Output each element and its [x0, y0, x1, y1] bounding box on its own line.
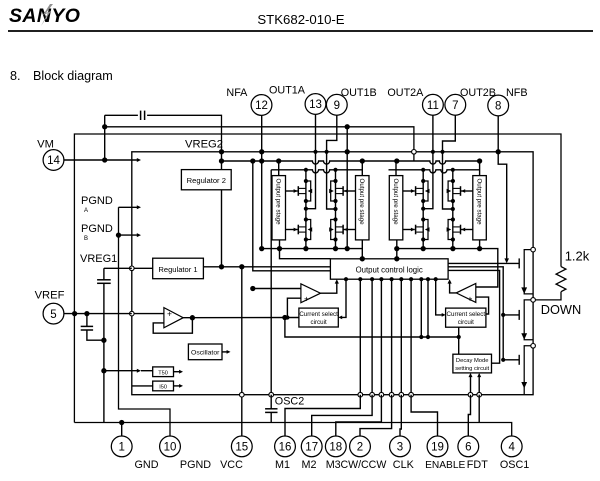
wire comp1 output to OCL	[321, 283, 337, 294]
wire M1	[285, 395, 360, 436]
svg-text:DOWN: DOWN	[541, 302, 582, 317]
transistor Q8 lower-right	[448, 220, 453, 240]
block Regulator 2	[181, 170, 231, 190]
wire GND pin	[121, 423, 123, 437]
wire OSC riser	[270, 170, 272, 395]
wire CLK	[400, 395, 401, 436]
pin 19 (ENABLE)	[427, 436, 448, 457]
svg-text:3: 3	[397, 442, 403, 454]
wire pin8 NFB drop	[498, 116, 507, 259]
svg-text:13: 13	[309, 99, 322, 111]
svg-text:1.2k: 1.2k	[565, 249, 590, 264]
svg-text:circuit: circuit	[311, 319, 327, 326]
junctions bridge1 source rail	[277, 246, 282, 251]
svg-text:9: 9	[334, 100, 340, 112]
svg-text:Output pre stage: Output pre stage	[358, 179, 365, 226]
svg-text:Output pre stage: Output pre stage	[392, 179, 399, 226]
wire comp2 output to OCL	[450, 283, 457, 293]
svg-text:8.: 8.	[10, 69, 21, 83]
transistor Q4 lower-right	[331, 220, 336, 240]
svg-text:GND: GND	[135, 459, 159, 471]
junction gate taps	[501, 313, 505, 317]
pin 17 (M2)	[301, 436, 322, 457]
wire pin11 OUT2A drop	[423, 115, 433, 209]
svg-text:M2: M2	[302, 459, 317, 471]
svg-text:Output pre stage: Output pre stage	[275, 179, 282, 226]
junctions OCL top	[360, 256, 365, 261]
wire CS2 bottom to decay box	[458, 327, 460, 354]
node VREG1 on left edge	[130, 266, 135, 271]
wire VM vertical stub	[104, 115, 106, 160]
wire T50 input	[104, 370, 138, 372]
junction pin1-GND on bottom rail	[119, 420, 124, 425]
svg-text:PGND: PGND	[81, 195, 113, 207]
svg-text:NFB: NFB	[506, 87, 528, 99]
bridge2 VM rail + columns	[395, 161, 397, 176]
wire prestage2A bottom to OCL top	[396, 240, 398, 259]
block output pre stage 1B	[356, 176, 370, 240]
svg-text:Current select: Current select	[447, 311, 486, 318]
svg-text:+: +	[304, 294, 309, 304]
bridge1 VM rail + columns	[278, 161, 280, 176]
wire prestage2B bottom stub	[479, 240, 481, 249]
transistor Q2 lower-left	[306, 220, 311, 240]
svg-text:10: 10	[164, 442, 177, 454]
capacitor C-OSC2	[265, 408, 277, 410]
svg-text:17: 17	[305, 442, 318, 454]
pin 13 (OUT1A)	[305, 94, 326, 115]
wire resistor bottom to DOWN node	[535, 292, 561, 300]
pin 16 (M1)	[275, 436, 296, 457]
wire pin7 OUT2B drop	[443, 115, 456, 209]
resistor R 1.2k	[556, 267, 566, 292]
svg-text:4: 4	[508, 442, 515, 454]
block Oscillator	[188, 344, 222, 360]
wire VREG1 cap bus	[104, 268, 132, 422]
wire decay inputs from pins	[470, 377, 472, 395]
svg-text:VM: VM	[37, 139, 54, 151]
svg-text:VREG1: VREG1	[80, 253, 117, 265]
wire Regulator1 input	[132, 267, 153, 269]
svg-text:Oscillator: Oscillator	[191, 350, 220, 357]
wire VM to inner box	[64, 159, 138, 161]
inner block boundary	[132, 152, 533, 395]
wire Regulator2 bottom to VCC rail	[221, 190, 223, 267]
wire PGND bus	[119, 207, 171, 436]
svg-text:I50: I50	[159, 385, 167, 391]
pin 9 (OUT1B)	[326, 94, 347, 115]
svg-text:PGND: PGND	[81, 223, 113, 235]
transistor Q1 upper-left	[306, 181, 311, 201]
transistor Q11 (down chain)	[524, 346, 533, 395]
pin 8 (NFB)	[488, 95, 509, 116]
wire gate leads bridge2	[403, 190, 415, 192]
transistor Q6 lower-left	[423, 220, 428, 240]
svg-text:OUT1B: OUT1B	[341, 87, 377, 99]
svg-text:19: 19	[431, 442, 444, 454]
junction decay feed	[419, 335, 423, 339]
wire M2	[312, 395, 372, 436]
wire prestage1B bottom to OCL top	[361, 240, 363, 259]
svg-text:+: +	[468, 293, 473, 303]
svg-text:Current select: Current select	[299, 311, 338, 318]
wire comp2 plus hook	[476, 297, 489, 314]
wire gate leads bridge1	[286, 190, 298, 192]
svg-text:A: A	[84, 208, 88, 214]
svg-text:circuit: circuit	[458, 319, 474, 326]
capacitor C-VREG1	[97, 279, 111, 281]
junction NFB top edge	[496, 149, 501, 154]
svg-text:PGND: PGND	[180, 459, 211, 471]
block Current select circuit A	[299, 308, 338, 327]
node down chain	[531, 247, 536, 252]
junction VREF wire on left rail	[72, 311, 77, 316]
wire VREG2 drop to regulator2	[221, 152, 223, 170]
wire FDT	[468, 395, 470, 436]
node VREF on left edge	[130, 311, 135, 316]
wire CW/CCW	[360, 395, 392, 436]
wire bridge2 source rail to comparator2	[397, 249, 498, 287]
transistor Q10 (down chain)	[524, 300, 533, 340]
svg-text:Output control logic: Output control logic	[356, 266, 423, 275]
wire pin9 OUT1B drop	[327, 115, 337, 209]
pin 2 (CW/CCW)	[350, 436, 371, 457]
wire VREF horizontal	[64, 313, 132, 315]
svg-text:OSC2: OSC2	[275, 396, 304, 408]
pin 7 (OUT2B)	[445, 94, 466, 115]
svg-text:12: 12	[255, 100, 268, 112]
svg-text:1: 1	[118, 442, 124, 454]
nodes on inner bottom edge	[240, 392, 245, 397]
pin 14 (VM)	[43, 150, 64, 171]
svg-text:CW/CCW: CW/CCW	[340, 459, 386, 471]
arrow NFB onto gate line	[504, 258, 509, 263]
svg-text:NFA: NFA	[226, 87, 248, 99]
svg-text:B: B	[84, 236, 88, 242]
svg-text:M1: M1	[275, 459, 290, 471]
pin 12 (NFA)	[251, 95, 272, 116]
svg-text:setting circuit: setting circuit	[455, 366, 489, 372]
wire pin12 NFA drop	[261, 115, 263, 248]
wire NFA sense (long horizontal)	[105, 127, 414, 161]
svg-text:VCC: VCC	[220, 459, 243, 471]
block I50	[153, 381, 174, 391]
svg-text:15: 15	[235, 442, 248, 454]
wire VCC riser	[241, 267, 243, 436]
arrow PGND-A into block	[119, 206, 138, 208]
block output pre stage 2A	[389, 176, 403, 240]
wire VREF to op-amp	[132, 313, 164, 315]
wire comparator1 input	[253, 288, 301, 290]
block output pre stage 2B	[473, 176, 487, 240]
comparator U2 (phase A)	[301, 284, 321, 303]
wire comp1 plus hook	[287, 298, 301, 317]
wire ENABLE	[411, 395, 437, 436]
op-amp U1 (VREF buffer)	[164, 308, 183, 328]
svg-text:CLK: CLK	[393, 459, 415, 471]
comparator U3 (phase B)	[456, 284, 476, 303]
svg-text:Regulator 1: Regulator 1	[158, 265, 197, 274]
wire M3	[336, 395, 382, 436]
svg-text:18: 18	[329, 442, 342, 454]
wire OSC1 jog	[478, 395, 480, 423]
svg-text:VREF: VREF	[35, 290, 65, 302]
pin 1 (GND)	[111, 436, 132, 457]
capacitor C-VREF	[81, 325, 93, 327]
pin 15 (VCC)	[231, 436, 252, 457]
wire gate leads down-chain	[503, 314, 519, 316]
svg-text:Output pre stage: Output pre stage	[475, 179, 482, 226]
pin 6 (FDT)	[458, 436, 479, 457]
block Output control logic	[330, 259, 448, 279]
junction VCC/Reg2 on reg1 wire	[239, 264, 244, 269]
block Current select circuit B	[446, 308, 486, 327]
junctions op-amp output	[190, 315, 195, 320]
block Regulator 1	[153, 258, 204, 279]
svg-text:+: +	[167, 309, 172, 319]
nodes wire crossings on top edge	[313, 150, 317, 154]
svg-text:SANYO: SANYO	[9, 5, 80, 27]
wire bridge1 source rail	[262, 248, 363, 250]
svg-text:FDT: FDT	[467, 459, 488, 471]
svg-text:OUT2B: OUT2B	[460, 87, 496, 99]
svg-text:7: 7	[452, 100, 458, 112]
wire oscillator output	[222, 351, 228, 353]
junction dots top-left	[102, 124, 107, 129]
wire I50 input	[132, 385, 153, 387]
transistor Q7 upper-right	[448, 181, 453, 201]
wire OCL right outputs	[448, 262, 519, 264]
svg-text:VREG2: VREG2	[185, 139, 223, 151]
junctions on VREG2 rail	[250, 158, 255, 163]
svg-text:14: 14	[47, 155, 60, 167]
header rule	[8, 30, 593, 32]
svg-text:8: 8	[495, 101, 501, 113]
block T50	[153, 367, 174, 377]
wire T50 output	[174, 371, 180, 373]
svg-text:OUT2A: OUT2A	[387, 87, 424, 99]
block Decay Mode setting circuit	[453, 354, 492, 373]
pin 5 (VREF)	[43, 303, 64, 324]
svg-text:11: 11	[427, 100, 439, 112]
svg-text:Regulator 2: Regulator 2	[187, 176, 226, 185]
transistor Q5 upper-left	[423, 181, 428, 201]
pin 11 (OUT2A)	[423, 94, 444, 115]
svg-text:STK682-010-E: STK682-010-E	[257, 12, 344, 27]
svg-text:Decay Mode: Decay Mode	[456, 358, 489, 364]
svg-text:OSC1: OSC1	[500, 459, 529, 471]
pin 3 (CLK)	[390, 436, 411, 457]
svg-text:6: 6	[465, 442, 471, 454]
wire decay feed horizontal	[285, 318, 459, 338]
junction VREF caps	[84, 311, 89, 316]
svg-text:OUT1A: OUT1A	[269, 85, 306, 97]
wire op-amp output	[183, 317, 299, 319]
svg-text:ENABLE: ENABLE	[425, 460, 465, 471]
wire VREG2 to OCL	[253, 161, 331, 271]
junction PGND-B	[116, 232, 121, 237]
svg-text:2: 2	[357, 442, 363, 454]
svg-text:T50: T50	[158, 370, 168, 376]
svg-text:Block diagram: Block diagram	[33, 69, 113, 83]
wire VREG2 rail	[222, 161, 482, 164]
block output pre stage 1A	[272, 176, 286, 240]
svg-text:16: 16	[279, 442, 292, 454]
wire NFA sense drop	[346, 127, 348, 249]
wire outer frame left+top+bottom	[74, 134, 561, 423]
junctions on cap bus	[101, 338, 106, 343]
transistor Q3 upper-right	[331, 181, 336, 201]
capacitor C-VREG2 (top)	[140, 111, 142, 120]
pin 10 (PGND)	[160, 436, 181, 457]
pin 4 (OSC1)	[501, 436, 522, 457]
junctions bridge2 source rail	[394, 246, 399, 251]
junction VREG2 on top edge	[219, 149, 224, 154]
wire OCL output bundle	[342, 279, 347, 317]
pin 18 (M3)	[325, 436, 346, 457]
wire prestage1A bottom to OCL	[280, 240, 331, 259]
transistor Q9 (down chain)	[524, 250, 533, 294]
wire VREG2 cap top	[105, 115, 222, 152]
svg-text:M3: M3	[326, 459, 341, 471]
wire pin13 OUT1A drop	[306, 114, 316, 208]
wire Regulator1 out to OCL	[203, 266, 330, 268]
svg-text:5: 5	[50, 309, 56, 321]
wire I50 output	[174, 385, 180, 387]
wire op-amp feedback loop	[153, 318, 192, 334]
arrow PGND-B into block	[119, 234, 138, 236]
